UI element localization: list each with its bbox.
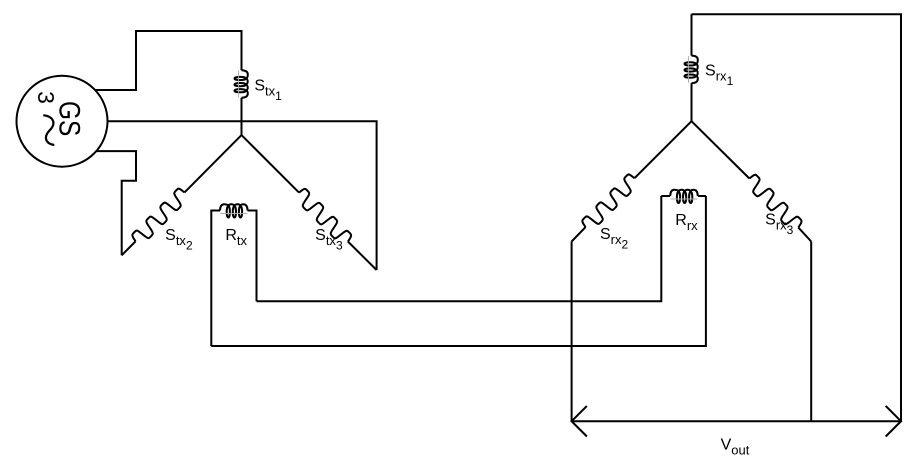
wire S_rx3 down to Vout arrow [810,242,812,422]
winding S_rx3 upper straight [692,121,750,178]
svg-text:Srx3: Srx3 [765,212,794,238]
Vout arrow line [572,420,901,422]
svg-text:Srx2: Srx2 [600,226,629,252]
svg-text:Vout: Vout [721,437,750,458]
winding S_tx3 upper straight [242,135,300,193]
winding S_rx2 upper straight [635,121,692,178]
svg-text:GS: GS [53,101,86,136]
top-right rail and right edge down to Vout arrow [692,14,902,421]
R_tx right terminal wire [248,211,257,302]
winding S_tx3 lower straight [348,242,377,271]
Vout arrowhead left [572,406,587,437]
R_rx top right stub [698,195,706,197]
wire R_tx left to R_rx right [211,196,706,346]
winding S_tx2 wave [130,187,189,246]
winding S_tx2 upper straight [185,135,242,192]
winding S_rx3 lower straight [798,227,811,241]
wire R_tx right to R_rx left [257,196,662,301]
wire generator middle port across to right vertical [108,121,377,270]
winding S_tx2 lower straight [122,241,136,255]
inductor R_rx coil [670,190,698,203]
svg-text:3: 3 [33,91,59,104]
winding S_rx2 wave [580,173,639,232]
Vout arrowhead right [886,406,901,437]
wire S_rx1 bottom to Y node [691,83,693,121]
svg-text:Stx1: Stx1 [254,78,282,104]
svg-text:Rrx: Rrx [675,212,698,233]
svg-text:Srx1: Srx1 [705,63,734,89]
wire generator top port to top-left rail into S_tx1 [95,31,241,90]
inductor S_rx1 coil [685,56,698,84]
wire S_rx2 down to Vout arrow [571,242,573,422]
svg-text:Stx3: Stx3 [315,227,343,253]
wire top rail down to S_rx1 [691,14,693,55]
R_rx top left stub [661,195,670,197]
wire generator bottom port stair-step [96,151,136,255]
winding S_rx3 wave [744,173,803,232]
R_tx left terminal wire [211,211,220,347]
svg-text:Rtx: Rtx [225,227,247,248]
winding S_tx3 wave [294,187,353,246]
winding S_rx2 lower straight [572,227,586,241]
inductor R_tx coil [220,204,248,217]
inductor S_tx1 coil [235,70,248,98]
generator G1 circle [17,76,108,167]
generator G1 AC tilde [43,115,54,145]
wire S_tx1 bottom to Y node [241,98,243,135]
svg-text:Stx2: Stx2 [165,227,193,253]
